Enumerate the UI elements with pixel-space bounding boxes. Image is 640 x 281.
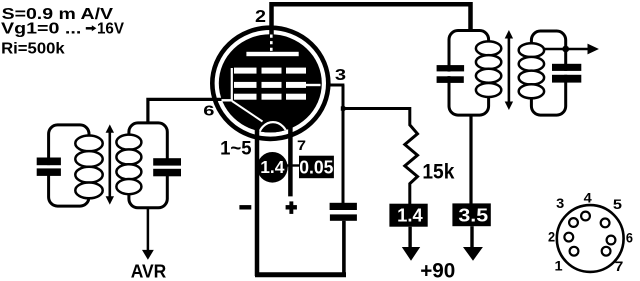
svg-text:2: 2	[548, 229, 555, 244]
box 3.5 (anode voltage)	[452, 203, 490, 226]
tube grid row 3 dashes (white)	[234, 94, 257, 100]
wire pin3 vertical down to capacitor	[342, 85, 345, 204]
box 0.05 (grid current)	[299, 156, 334, 179]
tube V1 inner black disc	[219, 34, 322, 132]
socket hole pin4	[581, 212, 590, 221]
T2 primary tank loop	[449, 31, 489, 116]
wire AVR from T1 secondary bottom	[147, 208, 150, 251]
socket hole pin6	[607, 236, 616, 245]
arrow below 3.5 box	[470, 226, 473, 249]
svg-text:AVR: AVR	[131, 261, 167, 281]
capacitor T2 primary plates	[437, 65, 465, 71]
svg-text:1.4: 1.4	[397, 205, 423, 226]
tube pin6 internal stub (white)	[222, 99, 233, 101]
coil T2 primary (4 loops)	[476, 41, 501, 55]
svg-text:7: 7	[615, 259, 624, 274]
svg-text:2: 2	[255, 6, 266, 26]
wire pin2 to right transformer top	[272, 4, 471, 35]
T2 secondary capacitor gap eraser	[560, 71, 573, 75]
junction output tap	[562, 46, 569, 53]
coil T1 secondary (4 loops)	[116, 135, 141, 150]
capacitor T2 secondary plates	[552, 64, 581, 71]
wire capacitor C3 to bottom loop	[342, 221, 346, 276]
wire right transformer bottom to 3.5 box	[469, 114, 472, 205]
plus terminal label	[286, 205, 297, 209]
tube cathode diagonal lead (white)	[232, 101, 263, 122]
wire output arrow	[544, 48, 589, 51]
box 1.4 (screen voltage)	[389, 204, 427, 227]
capacitor T1 primary plates	[37, 158, 61, 166]
tube V1 envelope outer ring	[212, 28, 328, 139]
svg-text:Vg1=0 ...: Vg1=0 ...	[1, 20, 81, 37]
svg-text:15k: 15k	[422, 160, 454, 183]
svg-text:16V: 16V	[97, 20, 125, 37]
wire pin3 stub	[328, 84, 344, 87]
junction at pin3/resistor branch	[341, 106, 345, 110]
svg-text:3: 3	[335, 67, 347, 84]
socket hole pin5	[601, 219, 610, 228]
socket hole pin3	[569, 218, 578, 227]
tube anode plate bar (white)	[246, 52, 298, 56]
svg-text:Ri=500k: Ri=500k	[1, 40, 65, 57]
svg-text:4: 4	[584, 190, 593, 205]
coil T1 primary (4 loops)	[75, 136, 102, 152]
resistor R1 15k zigzag	[405, 107, 418, 206]
capacitor T1 secondary plates	[153, 158, 181, 165]
svg-text:+90: +90	[420, 260, 455, 281]
wire pin6 to left transformer	[148, 99, 223, 124]
T2 primary capacitor gap eraser	[443, 72, 457, 77]
socket hole pin7	[602, 247, 611, 256]
svg-text:5: 5	[613, 197, 623, 212]
capacitor C3 plates	[330, 203, 357, 210]
T2 tuning core double arrow	[508, 36, 511, 104]
arrow to +90 from 1.4 box	[408, 227, 411, 249]
socket hole pin1	[570, 247, 579, 256]
badge 1.4 (filament voltage)	[257, 152, 288, 183]
tube grid g1 internal lead (white vertical)	[231, 68, 233, 100]
T1 tuning core double arrow	[109, 130, 112, 199]
svg-text:0.05: 0.05	[299, 156, 333, 177]
tube grid row 2 dashes (white)	[234, 82, 257, 88]
T1 secondary tank loop	[129, 123, 167, 208]
wire tube bottom left (pins 1-5, minus)	[255, 126, 260, 276]
svg-text:1.4: 1.4	[260, 157, 284, 177]
socket hole pin2	[564, 233, 573, 242]
svg-text:6: 6	[203, 102, 214, 119]
T1 primary tank loop	[49, 125, 89, 206]
socket circle	[557, 205, 624, 272]
svg-text:1: 1	[555, 259, 564, 274]
svg-text:3.5: 3.5	[458, 205, 488, 226]
coil T2 secondary (4 loops)	[519, 43, 544, 57]
svg-text:3: 3	[556, 196, 565, 211]
tube anode dotted lead (white)	[270, 35, 273, 52]
small arrow glyph in Vg1 line	[86, 27, 93, 30]
wire branch to resistor 15k	[343, 107, 410, 110]
svg-text:7: 7	[297, 137, 306, 153]
svg-text:1~5: 1~5	[220, 139, 252, 160]
wire tube bottom right (pin 7, plus)	[288, 126, 293, 196]
T1 secondary capacitor gap eraser	[159, 165, 175, 169]
T2 secondary tank loop	[531, 31, 565, 115]
tube grid row 1 dashes (white)	[234, 68, 257, 74]
tube pin3 internal lead (white)	[306, 84, 321, 86]
wire bottom return loop	[255, 272, 346, 277]
svg-text:6: 6	[626, 231, 634, 246]
T1 primary capacitor gap eraser	[41, 165, 57, 168]
wire badge to 0.05 box	[286, 164, 300, 166]
minus terminal label	[239, 205, 251, 209]
